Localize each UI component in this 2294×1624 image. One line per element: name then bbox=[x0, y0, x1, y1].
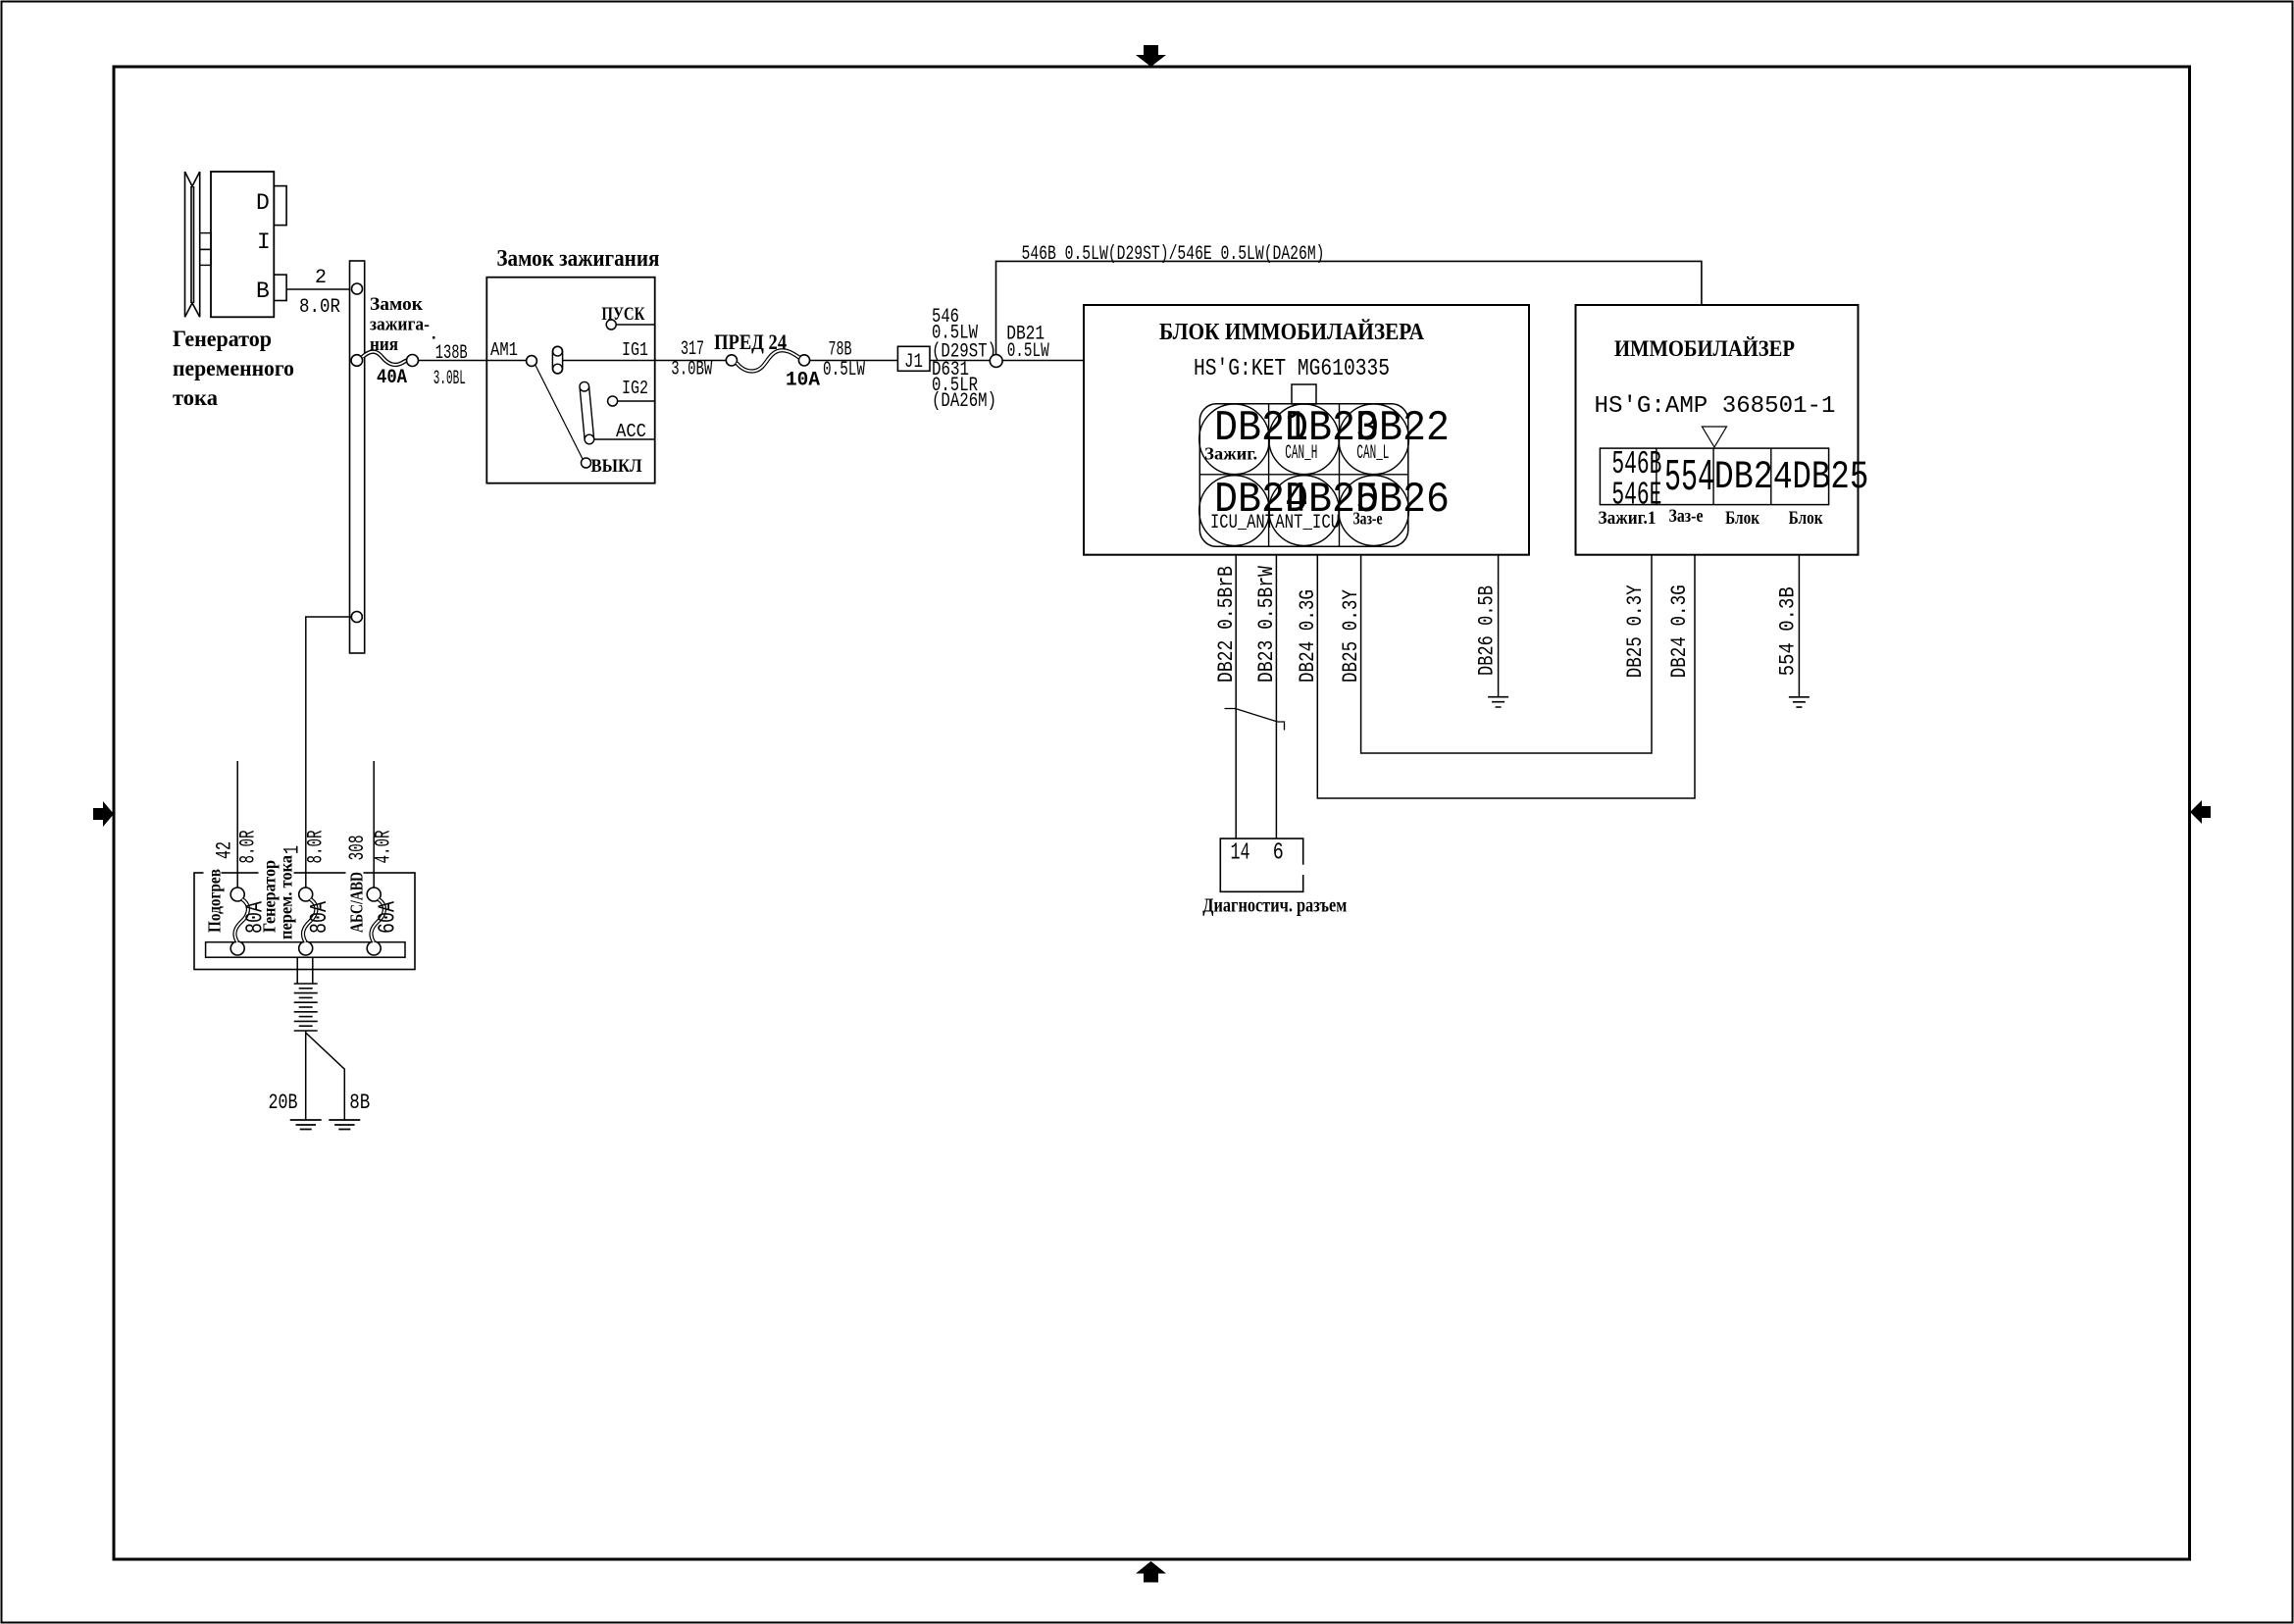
wire 317 to fuse 24 bbox=[655, 360, 727, 362]
fuse 80A (Подогрев) bbox=[230, 888, 244, 901]
wire 308 stub bbox=[373, 761, 375, 888]
svg-text:DB25 0.3Y: DB25 0.3Y bbox=[1623, 584, 1648, 678]
bottom nav arrow bbox=[1136, 1561, 1166, 1583]
svg-text:20B: 20B bbox=[269, 1091, 298, 1115]
fuse name Генератор bbox=[259, 867, 294, 941]
switch wiper diagonal bbox=[535, 366, 583, 460]
left nav arrow bbox=[93, 801, 114, 827]
svg-text:Заз-е: Заз-е bbox=[1353, 509, 1383, 529]
fuse 60A (АБС/ABD) bbox=[367, 888, 381, 901]
svg-text:HS'G:KET MG610335: HS'G:KET MG610335 bbox=[1194, 356, 1390, 382]
svg-text:ANT_ICU: ANT_ICU bbox=[1275, 512, 1340, 534]
svg-text:Замок: Замок bbox=[370, 294, 423, 315]
wire 554 to ground bbox=[1798, 555, 1800, 697]
svg-text:308: 308 bbox=[345, 836, 370, 861]
junction node bbox=[990, 355, 1002, 368]
svg-text:CAN_H: CAN_H bbox=[1285, 442, 1317, 465]
connector grid bbox=[1199, 404, 1408, 547]
ПУСК contact + stub bbox=[606, 320, 616, 330]
terminal D tab bbox=[274, 186, 286, 226]
ignition switch box bbox=[486, 278, 654, 483]
generator pulley (belt) bbox=[185, 172, 200, 317]
IG1 line bbox=[563, 360, 655, 362]
connector tab bbox=[1292, 384, 1316, 404]
battery wire to ground 8B bbox=[306, 1033, 345, 1120]
svg-text:14: 14 bbox=[1231, 840, 1250, 867]
wire DB23 to diagnostic pin 6 bbox=[1275, 555, 1277, 838]
svg-text:1: 1 bbox=[280, 845, 305, 854]
pulley-to-body tabs bbox=[200, 233, 212, 250]
svg-text:D: D bbox=[256, 190, 270, 216]
branch up and across to immobilizer bbox=[996, 261, 1702, 354]
svg-text:10A: 10A bbox=[786, 370, 820, 392]
svg-text:8.0R: 8.0R bbox=[299, 296, 340, 319]
ground 554 bbox=[1789, 697, 1810, 707]
svg-text:DB22 0.5BrB: DB22 0.5BrB bbox=[1214, 566, 1239, 683]
svg-text:554: 554 bbox=[1664, 453, 1714, 503]
wire 42 stub bbox=[236, 761, 238, 888]
diagnostic connector box bbox=[1220, 838, 1302, 891]
wire DB22 to diagnostic pin 14 bbox=[1235, 555, 1237, 838]
ground DB26 bbox=[1488, 697, 1508, 707]
ACC line bbox=[594, 438, 655, 440]
wire into AM1 bbox=[486, 360, 526, 362]
svg-text:DB26 0.5B: DB26 0.5B bbox=[1475, 585, 1500, 676]
svg-text:2: 2 bbox=[315, 267, 327, 289]
svg-text:Генератор: Генератор bbox=[173, 327, 272, 351]
bus node circle mid (40A feed) bbox=[351, 355, 363, 367]
svg-text:4.0R: 4.0R bbox=[372, 831, 396, 864]
svg-text:ИММОБИЛАЙЗЕР: ИММОБИЛАЙЗЕР bbox=[1614, 336, 1795, 361]
fuse name Подогрев bbox=[204, 867, 222, 934]
ground 20B bbox=[290, 1120, 322, 1130]
svg-text:8.0R: 8.0R bbox=[236, 831, 261, 864]
svg-text:тока: тока bbox=[173, 385, 218, 410]
IG2 contact + stub bbox=[608, 396, 618, 406]
ВЫКЛ contact bbox=[582, 458, 591, 468]
connector body bbox=[1199, 404, 1408, 547]
svg-text:(DA26M): (DA26M) bbox=[932, 390, 996, 413]
immobilizer unit box bbox=[1084, 305, 1529, 555]
svg-text:AM1: AM1 bbox=[490, 339, 518, 361]
stray dot bbox=[433, 336, 435, 339]
wire 78B to J1 bbox=[810, 360, 898, 362]
svg-text:Заз-е: Заз-е bbox=[1669, 506, 1704, 527]
battery wire to ground 20B bbox=[305, 1031, 307, 1120]
svg-text:Подогрев: Подогрев bbox=[205, 869, 225, 933]
svg-text:Диагностич. разъем: Диагностич. разъем bbox=[1202, 895, 1347, 917]
svg-text:J1: J1 bbox=[904, 351, 923, 374]
svg-text:Блок: Блок bbox=[1789, 508, 1823, 529]
svg-text:переменного: переменного bbox=[173, 356, 294, 381]
svg-text:42: 42 bbox=[213, 841, 237, 859]
svg-text:80A: 80A bbox=[243, 901, 270, 934]
generator body bbox=[211, 172, 274, 317]
svg-text:IG2: IG2 bbox=[622, 378, 648, 399]
svg-text:I: I bbox=[257, 229, 271, 255]
svg-text:0.5LW: 0.5LW bbox=[1007, 340, 1049, 363]
fuse bus bar bbox=[206, 942, 405, 958]
svg-text:перем. тока: перем. тока bbox=[276, 855, 295, 939]
wire J1 to immobilizer unit bbox=[930, 360, 1084, 362]
junction box J1 bbox=[897, 346, 930, 371]
svg-text:АБС/ABD: АБС/ABD bbox=[347, 872, 367, 933]
fuse box bbox=[194, 873, 415, 970]
battery bbox=[294, 984, 318, 1031]
svg-text:ВЫКЛ: ВЫКЛ bbox=[591, 456, 642, 477]
bus bar (ignition feed) bbox=[350, 261, 365, 653]
bus node circle low (battery feed) bbox=[351, 612, 362, 623]
pin cavity circles bbox=[1199, 404, 1270, 475]
svg-text:ICU_ANT: ICU_ANT bbox=[1210, 512, 1274, 534]
svg-text:8B: 8B bbox=[349, 1091, 370, 1115]
wire 138B to ignition switch bbox=[419, 360, 487, 362]
twisted pair slash on DB22/DB23 bbox=[1225, 709, 1285, 731]
wire DB26 to ground bbox=[1498, 555, 1500, 697]
svg-text:60A: 60A bbox=[376, 901, 402, 934]
svg-text:B: B bbox=[256, 279, 270, 304]
svg-text:HS'G:AMP 368501-1: HS'G:AMP 368501-1 bbox=[1595, 393, 1836, 420]
wire bus to battery/fusebox bbox=[306, 617, 351, 888]
terminal B tab bbox=[274, 275, 286, 300]
svg-text:Зажиг.: Зажиг. bbox=[1204, 444, 1257, 464]
svg-text:зажига-: зажига- bbox=[370, 315, 430, 335]
ground 8B bbox=[329, 1120, 360, 1130]
svg-text:6: 6 bbox=[1273, 840, 1284, 867]
svg-text:DB24 0.3G: DB24 0.3G bbox=[1296, 589, 1320, 683]
immobilizer connector bbox=[1600, 448, 1828, 504]
svg-text:40A: 40A bbox=[377, 367, 407, 389]
wire DB25 loop to immobilizer bbox=[1361, 555, 1652, 753]
top nav arrow bbox=[1136, 45, 1166, 67]
svg-text:0.5LW: 0.5LW bbox=[823, 359, 865, 381]
svg-text:DB23 0.5BrW: DB23 0.5BrW bbox=[1254, 565, 1279, 683]
svg-text:Блок: Блок bbox=[1725, 508, 1759, 529]
svg-text:554 0.3B: 554 0.3B bbox=[1775, 586, 1800, 676]
svg-text:DB25 0.3Y: DB25 0.3Y bbox=[1339, 589, 1363, 683]
fuse 80A (Генератор) bbox=[299, 888, 313, 901]
ACC bridge capsule (tilted) bbox=[580, 386, 594, 440]
svg-text:546B 0.5LW(D29ST)/546E 0.5LW: 546B 0.5LW(D29ST)/546E 0.5LW(DA26M) bbox=[1022, 243, 1325, 266]
wires bar to battery bbox=[297, 957, 313, 984]
fuse ПРЕД 24 bbox=[726, 355, 737, 366]
svg-text:3.0BW: 3.0BW bbox=[671, 359, 712, 381]
40A fusible link bbox=[363, 352, 412, 365]
wire B to bus bbox=[286, 288, 349, 290]
AM1 contact bbox=[527, 356, 537, 367]
svg-text:Замок зажигания: Замок зажигания bbox=[496, 246, 659, 272]
svg-text:Зажиг.1: Зажиг.1 bbox=[1599, 508, 1657, 529]
svg-text:DB24 0.3G: DB24 0.3G bbox=[1667, 584, 1692, 678]
svg-text:IG1: IG1 bbox=[622, 339, 648, 361]
svg-text:3.0BL: 3.0BL bbox=[433, 368, 466, 390]
bus node circle top bbox=[352, 283, 363, 294]
fuse name АБС/ABD bbox=[346, 867, 364, 934]
svg-text:8.0R: 8.0R bbox=[304, 831, 329, 864]
connector key triangle bbox=[1702, 427, 1726, 447]
svg-text:DB24: DB24 bbox=[1714, 456, 1793, 500]
svg-text:80A: 80A bbox=[307, 901, 333, 934]
IG1 bridge capsule bbox=[552, 346, 562, 374]
wire DB24 loop to immobilizer bbox=[1317, 555, 1695, 798]
svg-text:БЛОК ИММОБИЛАЙЗЕРА: БЛОК ИММОБИЛАЙЗЕРА bbox=[1159, 320, 1425, 345]
right nav arrow bbox=[2190, 800, 2211, 824]
immobilizer box bbox=[1576, 305, 1859, 555]
svg-text:DB25: DB25 bbox=[1792, 456, 1868, 500]
svg-text:CAN_L: CAN_L bbox=[1356, 442, 1389, 465]
svg-text:138B: 138B bbox=[435, 342, 468, 365]
